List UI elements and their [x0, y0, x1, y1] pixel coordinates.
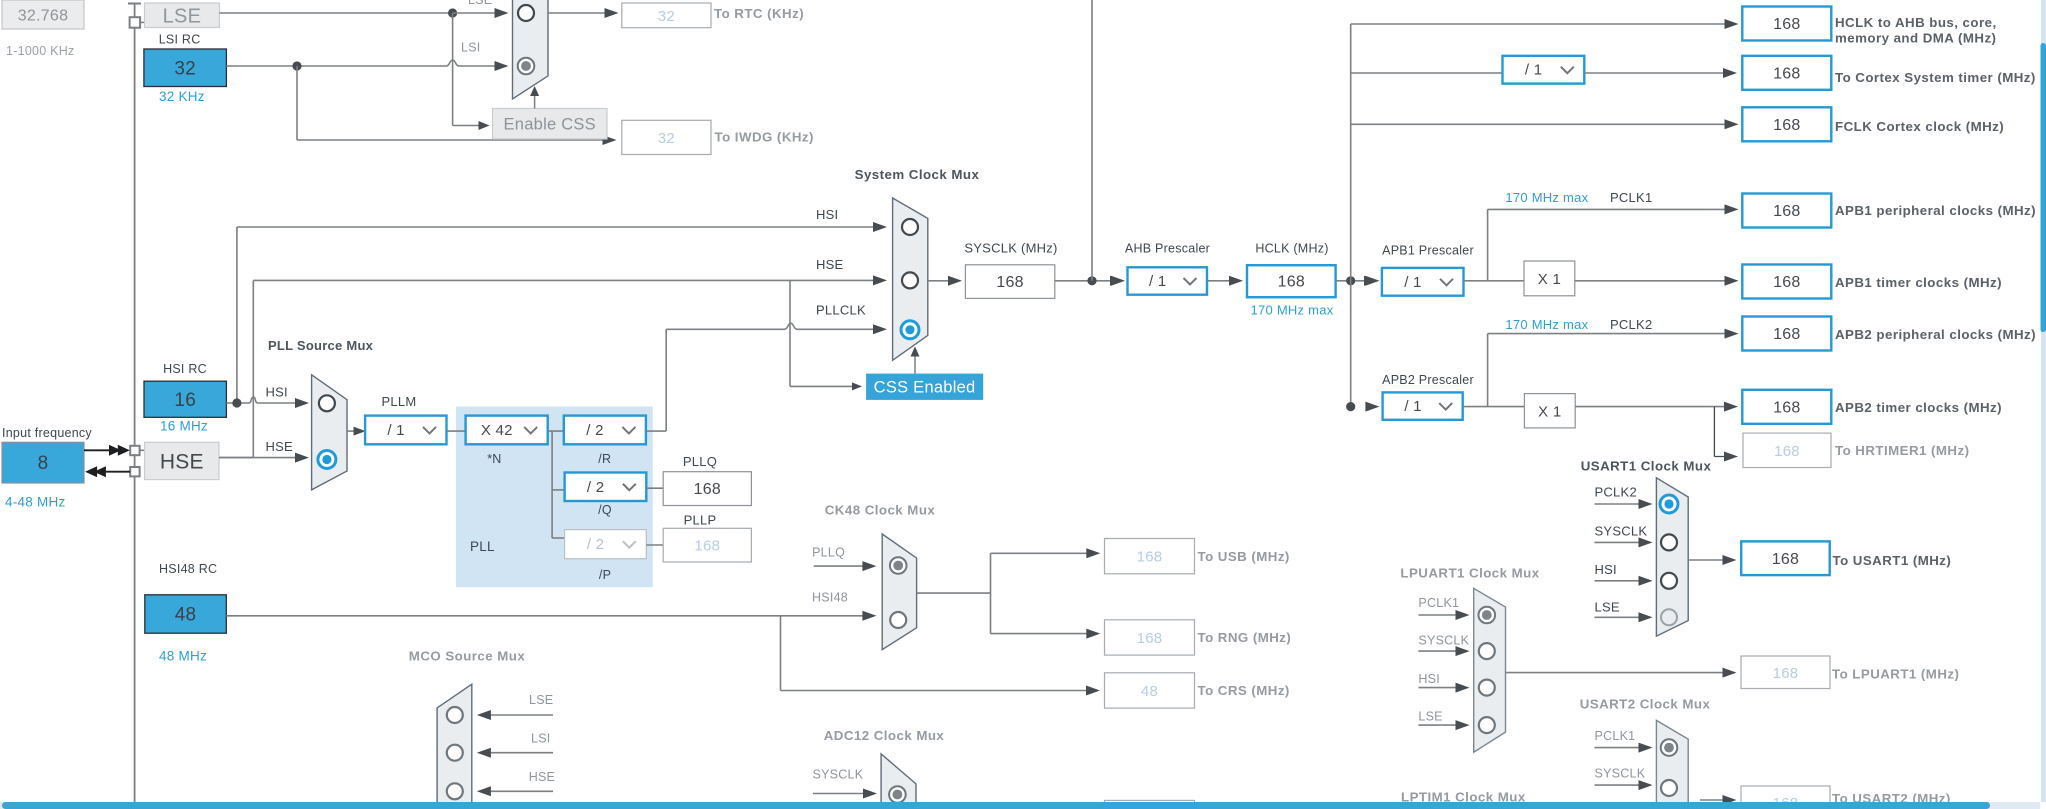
svg-text:LPUART1 Clock Mux: LPUART1 Clock Mux — [1400, 566, 1539, 581]
svg-text:HCLK (MHz): HCLK (MHz) — [1255, 242, 1328, 256]
radio PLLCLK selected blue — [901, 321, 919, 339]
label 170 MHz max PCLK1 — [1505, 190, 1652, 205]
distribution bus HCLK — [1350, 24, 1352, 407]
label MCO Source Mux — [409, 648, 526, 663]
svg-text:/ 1: / 1 — [1525, 62, 1542, 79]
output box To IWDG — [622, 120, 711, 154]
label To IWDG (KHz) — [715, 130, 814, 145]
output box To ADC12 (clipped) — [1105, 800, 1195, 809]
button Enable CSS — [493, 109, 608, 140]
svg-text:APB1 peripheral clocks (MHz): APB1 peripheral clocks (MHz) — [1835, 203, 2036, 218]
stub wire PCLK1 U2 — [1595, 743, 1653, 753]
svg-text:APB2 peripheral clocks (MHz): APB2 peripheral clocks (MHz) — [1835, 327, 2036, 342]
label HSI48 input — [812, 591, 848, 605]
wire CK48 output — [917, 592, 991, 594]
svg-text:ADC12 Clock Mux: ADC12 Clock Mux — [824, 728, 945, 743]
wire USART1 mux output — [1688, 555, 1736, 565]
svg-text:LSE: LSE — [468, 0, 492, 7]
svg-text:CSS Enabled: CSS Enabled — [874, 378, 976, 396]
label HSI input U1 — [1595, 562, 1617, 577]
wire N to R and divider tree — [548, 431, 565, 538]
output box To USART2 (clipped) — [1741, 786, 1830, 809]
label APB2 timer clocks (MHz) — [1835, 400, 2002, 415]
label LSE (clipped at top) — [468, 0, 492, 7]
stub wire LSE LP — [1418, 720, 1469, 730]
label HSI input LP — [1418, 672, 1440, 686]
svg-text:170 MHz max: 170 MHz max — [1505, 190, 1588, 205]
dropdown APB1 prescaler /1 — [1382, 268, 1464, 296]
label LSI MCO — [531, 732, 551, 746]
svg-text:USART1 Clock Mux: USART1 Clock Mux — [1581, 459, 1712, 474]
wire input to HSE with arrows — [84, 445, 130, 456]
stub wire HSI U1 — [1595, 576, 1653, 586]
label SYSCLK input LP — [1418, 634, 1469, 648]
mux MCO (clipped) — [437, 684, 472, 809]
branch HSI48 to CRS — [781, 616, 1101, 696]
svg-text:USART2 Clock Mux: USART2 Clock Mux — [1580, 697, 1711, 712]
dropdown PLLP /2 disabled — [565, 530, 647, 559]
output box Cortex system timer — [1742, 56, 1831, 90]
branch APB1 to PCLK1 — [1488, 204, 1739, 280]
svg-text:168: 168 — [1773, 16, 1800, 33]
label 1-1000 KHz — [6, 44, 75, 58]
label LPTIM1 Clock Mux (clipped) — [1401, 790, 1526, 805]
mux ADC12 (clipped) — [881, 754, 916, 809]
wire HSE to system mux — [253, 275, 887, 285]
svg-text:1-1000 KHz: 1-1000 KHz — [6, 44, 75, 58]
svg-text:LSE: LSE — [1418, 709, 1442, 723]
label AHB Prescaler — [1125, 242, 1210, 256]
mux PLL Source — [312, 375, 347, 490]
input box frequency 8 — [2, 442, 84, 483]
radio LSI input selected grey — [518, 58, 535, 75]
svg-text:X 42: X 42 — [481, 422, 513, 439]
svg-text:170 MHz max: 170 MHz max — [1505, 317, 1588, 332]
svg-text:32: 32 — [658, 130, 675, 147]
dropdown APB2 prescaler /1 — [1383, 392, 1463, 419]
output box APB2 peripheral clocks — [1742, 317, 1831, 351]
radio LSE input unselected — [518, 5, 534, 21]
svg-text:PLLM: PLLM — [382, 394, 417, 409]
label Input frequency — [2, 426, 92, 440]
wire HCLK to FCLK box — [1351, 119, 1739, 129]
label SYSCLK input U1 — [1595, 523, 1648, 538]
value box SYSCLK 168 — [965, 265, 1054, 299]
radio PCLK2 selected blue — [1660, 495, 1678, 513]
svg-text:PCLK2: PCLK2 — [1595, 485, 1637, 500]
svg-text:PLLQ: PLLQ — [812, 546, 845, 560]
svg-text:/ 2: / 2 — [586, 422, 603, 439]
radio MCO HSE unselected — [447, 783, 463, 799]
svg-text:/ 2: / 2 — [587, 536, 604, 553]
svg-text:PLLCLK: PLLCLK — [816, 303, 866, 318]
output box FCLK — [1742, 107, 1831, 141]
radio PCLK1 selected grey LP — [1479, 607, 1496, 624]
svg-text:/P: /P — [599, 568, 611, 582]
radio MCO LSE unselected — [447, 707, 463, 723]
mux USART1 — [1656, 478, 1688, 636]
wire crystal square to LSE box — [140, 21, 144, 23]
svg-text:LSE: LSE — [529, 693, 553, 707]
branch to HRTIMER1 — [1714, 407, 1738, 462]
label HSE MCO — [529, 770, 555, 784]
svg-text:PCLK1: PCLK1 — [1595, 729, 1636, 743]
output box HCLK to AHB — [1742, 7, 1831, 41]
svg-text:To IWDG (KHz): To IWDG (KHz) — [715, 130, 814, 145]
wire HSI to system mux — [237, 222, 887, 232]
wire LSE to RTC mux — [453, 8, 509, 18]
label USART2 Clock Mux — [1580, 697, 1711, 712]
svg-text:HSE: HSE — [816, 257, 844, 272]
radio MCO LSI unselected — [447, 745, 463, 761]
branch APB2 to PCLK2 — [1488, 329, 1739, 407]
output box To RTC — [622, 3, 711, 28]
radio LSE unselected U1 — [1661, 609, 1677, 625]
svg-text:X 1: X 1 — [1538, 271, 1561, 288]
svg-text:48 MHz: 48 MHz — [159, 649, 207, 664]
label To USART2 (MHz) clipped — [1832, 791, 1951, 806]
oscillator box HSE — [145, 442, 219, 479]
svg-text:168: 168 — [1773, 665, 1799, 682]
svg-text:168: 168 — [1774, 443, 1800, 460]
svg-text:32 KHz: 32 KHz — [159, 89, 205, 104]
label To HRTIMER1 (MHz) — [1835, 443, 1969, 458]
label HSI RC — [163, 362, 207, 376]
wire APB1 output — [1464, 280, 1525, 282]
label PCLK2 input — [1595, 485, 1637, 500]
value box HCLK 168 — [1247, 265, 1336, 297]
vertical scrollbar track — [2041, 0, 2046, 802]
label /R — [598, 452, 611, 466]
mux USART2 (clipped) — [1656, 720, 1688, 809]
svg-text:8: 8 — [38, 453, 49, 474]
horizontal scrollbar thumb — [2, 802, 1990, 809]
label LSI RC — [159, 33, 201, 47]
label HSI48 RC — [159, 562, 217, 576]
label HSI at PLL mux — [266, 385, 288, 400]
label 32 KHz — [159, 89, 205, 104]
wire HSI48 output — [226, 611, 876, 621]
radio PCLK1 selected grey U2 — [1661, 739, 1678, 756]
svg-text:/ 1: / 1 — [1404, 274, 1421, 291]
svg-text:SYSCLK: SYSCLK — [1418, 634, 1469, 648]
svg-text:32.768: 32.768 — [18, 8, 68, 25]
label /P — [599, 568, 611, 582]
svg-text:APB2 Prescaler: APB2 Prescaler — [1382, 373, 1474, 387]
label To RNG (MHz) — [1198, 630, 1292, 645]
svg-text:/ 1: / 1 — [1404, 398, 1421, 415]
svg-text:PLLP: PLLP — [684, 513, 717, 528]
multiplier box X1 APB2 — [1524, 394, 1575, 428]
dropdown AHB prescaler /1 — [1128, 267, 1208, 294]
svg-text:APB2 timer clocks (MHz): APB2 timer clocks (MHz) — [1835, 400, 2002, 415]
riser PLLCLK — [665, 329, 667, 431]
label 4-48 MHz — [5, 494, 66, 509]
svg-text:168: 168 — [1773, 326, 1800, 343]
stub wire LSI to MCO — [477, 748, 553, 758]
dropdown PLLQ /2 — [565, 473, 647, 502]
mux System Clock — [893, 198, 928, 360]
radio SYSCLK selected grey ADC — [889, 786, 906, 803]
wire P to PLLP box — [646, 544, 663, 546]
label To LPUART1 (MHz) — [1832, 667, 1959, 682]
svg-text:AHB Prescaler: AHB Prescaler — [1125, 242, 1210, 256]
svg-text:Input frequency: Input frequency — [2, 426, 92, 440]
svg-text:APB1 timer clocks (MHz): APB1 timer clocks (MHz) — [1835, 275, 2002, 290]
wire PLL mux output — [347, 427, 366, 436]
svg-text:PLLQ: PLLQ — [683, 454, 717, 469]
wire HSE to PLL mux — [219, 453, 309, 463]
wire LSI output with hop — [226, 60, 508, 71]
svg-text:SYSCLK (MHz): SYSCLK (MHz) — [964, 241, 1057, 256]
crystal pin square — [130, 17, 141, 28]
label SYSCLK (MHz) — [964, 241, 1057, 256]
svg-text:170 MHz max: 170 MHz max — [1251, 303, 1334, 318]
oscillator box LSI RC 32 — [144, 49, 227, 87]
label APB1 timer clocks (MHz) — [1835, 275, 2002, 290]
svg-text:HSI: HSI — [1595, 562, 1617, 577]
svg-text:FCLK Cortex clock (MHz): FCLK Cortex clock (MHz) — [1835, 119, 2004, 134]
svg-text:16 MHz: 16 MHz — [160, 419, 208, 434]
riser HSI — [236, 227, 238, 403]
svg-text:/R: /R — [598, 452, 611, 466]
wire square to HSE box — [140, 449, 145, 451]
label LPUART1 Clock Mux — [1400, 566, 1539, 581]
svg-text:To HRTIMER1 (MHz): To HRTIMER1 (MHz) — [1835, 443, 1969, 458]
svg-text:168: 168 — [694, 538, 720, 555]
svg-text:32: 32 — [658, 8, 675, 25]
stub wire PCLK1 LP — [1418, 610, 1469, 620]
svg-text:HSI48: HSI48 — [812, 591, 848, 605]
svg-text:168: 168 — [1773, 203, 1800, 220]
label 170 MHz max under HCLK — [1251, 303, 1334, 318]
svg-text:memory and DMA (MHz): memory and DMA (MHz) — [1835, 31, 1996, 46]
svg-text:168: 168 — [1278, 274, 1305, 291]
label HCLK to AHB bus core memory and DMA — [1835, 15, 1997, 46]
svg-text:168: 168 — [1773, 399, 1800, 416]
svg-text:HSI RC: HSI RC — [163, 362, 207, 376]
svg-text:168: 168 — [694, 481, 721, 498]
riser SYSCLK to top — [1091, 0, 1093, 281]
label HSI — [816, 207, 838, 222]
svg-text:32: 32 — [174, 58, 196, 79]
svg-text:168: 168 — [996, 274, 1023, 291]
label PLL Source Mux — [268, 338, 374, 353]
dropdown PLLR /2 — [564, 416, 646, 445]
label USART1 Clock Mux — [1581, 459, 1712, 474]
stub wire HSE to MCO — [477, 786, 553, 796]
value box PLLP 168 disabled — [663, 528, 751, 562]
label To USB (MHz) — [1198, 549, 1290, 564]
output box APB1 timer clocks — [1742, 265, 1831, 299]
arrow into AHB prescaler — [1111, 276, 1125, 286]
wire PLLCLK to system mux with hop — [666, 323, 887, 334]
svg-text:168: 168 — [1773, 117, 1800, 134]
panel PLL highlight — [456, 407, 653, 588]
branch CK48 to USB and RNG — [991, 548, 1101, 638]
svg-text:168: 168 — [1137, 549, 1163, 566]
dropdown PLLN X42 — [466, 416, 548, 445]
svg-text:To RTC (KHz): To RTC (KHz) — [714, 6, 804, 21]
pin square OSC_IN — [130, 446, 139, 455]
node junction HCLK — [1346, 276, 1355, 285]
svg-text:168: 168 — [1772, 551, 1799, 568]
label PLLQ input — [812, 546, 845, 560]
svg-text:4-48 MHz: 4-48 MHz — [5, 494, 66, 509]
output box To USART1 — [1741, 541, 1830, 575]
output box To USB — [1105, 539, 1195, 574]
svg-text:168: 168 — [1773, 274, 1800, 291]
label SYSCLK input ADC — [813, 768, 864, 782]
radio HSI48 unselected — [890, 612, 906, 628]
svg-text:*N: *N — [487, 452, 501, 466]
mux CK48 — [882, 534, 916, 650]
stub wire SYSCLK LP — [1418, 646, 1469, 656]
wire APB1 timer output — [1575, 276, 1739, 286]
svg-text:System Clock Mux: System Clock Mux — [855, 167, 980, 182]
radio HSI unselected — [902, 219, 918, 235]
output box To CRS — [1105, 673, 1195, 708]
wire HCLK to AHB output box — [1351, 19, 1739, 29]
radio SYSCLK unselected U2 — [1661, 780, 1677, 796]
label 48 MHz — [159, 649, 207, 664]
stub wire LSE U1 — [1595, 612, 1653, 622]
node junction HSI — [232, 398, 241, 407]
wire HSE return with arrows — [85, 466, 130, 477]
stub wire SYSCLK U2 — [1595, 780, 1653, 790]
svg-text:LSE: LSE — [163, 5, 202, 27]
value box PLLQ 168 — [663, 472, 751, 506]
label HSE at PLL mux — [266, 439, 294, 454]
wire SYSCLK output — [1055, 276, 1124, 286]
svg-text:HSE: HSE — [529, 770, 555, 784]
output box To LPUART1 — [1741, 656, 1830, 689]
svg-text:X 1: X 1 — [1538, 403, 1561, 420]
wire R output to PLLCLK riser — [646, 430, 666, 432]
radio SYSCLK unselected LP — [1479, 643, 1495, 659]
svg-text:HSI: HSI — [816, 207, 838, 222]
svg-text:SYSCLK: SYSCLK — [1595, 767, 1646, 781]
arrow CSS Enabled to mux — [911, 347, 920, 374]
svg-text:168: 168 — [1137, 630, 1163, 647]
wire HSE branch to CSS Enabled — [790, 280, 862, 390]
label ADC12 Clock Mux — [824, 728, 945, 743]
svg-text:HSE: HSE — [266, 439, 294, 454]
label PCLK1 input LP — [1418, 596, 1459, 610]
wire cortex prescaler to output — [1584, 68, 1737, 78]
node junction on LSE wire — [448, 8, 457, 17]
label PLLCLK — [816, 303, 866, 318]
label LSI — [461, 41, 481, 55]
svg-text:CK48 Clock Mux: CK48 Clock Mux — [825, 503, 936, 518]
pin square OSC_OUT — [130, 467, 139, 476]
dropdown Cortex prescaler /1 — [1503, 56, 1585, 84]
label PCLK1 input U2 — [1595, 729, 1636, 743]
label APB1 Prescaler — [1382, 244, 1474, 258]
svg-text:168: 168 — [1773, 65, 1800, 82]
svg-text:48: 48 — [175, 605, 197, 626]
svg-text:48: 48 — [1141, 683, 1158, 700]
svg-text:To Cortex System timer (MHz): To Cortex System timer (MHz) — [1835, 70, 2036, 85]
svg-text:LSI RC: LSI RC — [159, 33, 201, 47]
oscillator box HSI RC 16 — [144, 381, 226, 417]
label 16 MHz — [160, 419, 208, 434]
main left bus wire — [134, 4, 136, 803]
wire USART2 output (clipped) — [1700, 795, 1737, 805]
svg-text:LSE: LSE — [1595, 600, 1620, 615]
label 170 MHz max PCLK2 — [1505, 317, 1652, 332]
svg-text:PLL Source Mux: PLL Source Mux — [268, 338, 374, 353]
wire HCLK output — [1336, 276, 1378, 286]
wire LPUART1 output — [1506, 668, 1737, 678]
wire LSE junction down to Enable CSS — [453, 13, 490, 130]
svg-text:HCLK to AHB bus, core,: HCLK to AHB bus, core, — [1835, 15, 1997, 30]
svg-text:LSI: LSI — [461, 41, 481, 55]
svg-text:MCO Source Mux: MCO Source Mux — [409, 648, 526, 663]
svg-text:Enable CSS: Enable CSS — [504, 116, 596, 134]
stub wire PLLQ to CK48 — [814, 561, 877, 571]
label LSE input U1 — [1595, 600, 1620, 615]
wire HCLK to cortex prescaler — [1351, 72, 1503, 74]
radio HSI unselected U1 — [1661, 573, 1677, 589]
svg-text:SYSCLK: SYSCLK — [1595, 523, 1648, 538]
label LSE MCO — [529, 693, 553, 707]
svg-text:PCLK2: PCLK2 — [1610, 317, 1652, 332]
output box To HRTIMER1 — [1743, 433, 1831, 467]
arrow Enable CSS to RTC mux — [530, 86, 539, 109]
label APB2 Prescaler — [1382, 373, 1474, 387]
label HCLK (MHz) — [1255, 242, 1328, 256]
output box APB1 peripheral clocks — [1742, 194, 1831, 228]
label /Q — [598, 503, 612, 517]
button CSS Enabled — [866, 374, 983, 400]
wire HSI to PLL mux with hop — [226, 397, 309, 408]
svg-text:/ 1: / 1 — [1149, 273, 1166, 290]
radio HSI unselected LP — [1479, 680, 1495, 696]
oscillator box HSI48 RC 48 — [145, 595, 227, 633]
arrow into APB2 prescaler — [1365, 402, 1379, 412]
dropdown PLLM /1 — [365, 416, 446, 445]
label PLLQ — [683, 454, 717, 469]
radio HSE selected blue PLL — [318, 451, 336, 469]
label To RTC (KHz) — [714, 6, 804, 21]
label PLLP — [684, 513, 717, 528]
mux RTC clock (clipped at top) — [513, 0, 549, 99]
svg-text:/ 1: / 1 — [387, 422, 404, 439]
node junction SYSCLK — [1087, 276, 1096, 285]
label SYSCLK input U2 — [1595, 767, 1646, 781]
label *N — [487, 452, 501, 466]
label CK48 Clock Mux — [825, 503, 936, 518]
svg-text:16: 16 — [174, 390, 196, 411]
mux LPUART1 — [1474, 588, 1506, 752]
label LSE input LP — [1418, 709, 1442, 723]
radio HSI unselected PLL — [319, 395, 335, 411]
oscillator box LSE — [145, 3, 220, 28]
input field 32.768 KHz LSE frequency — [2, 0, 84, 29]
node junction on LSI wire — [292, 61, 301, 70]
svg-text:To USB (MHz): To USB (MHz) — [1198, 549, 1290, 564]
svg-text:To USART1 (MHz): To USART1 (MHz) — [1833, 553, 1952, 568]
label System Clock Mux — [855, 167, 980, 182]
wire HSE output — [219, 457, 253, 459]
svg-text:LSI: LSI — [531, 732, 551, 746]
horizontal scrollbar track — [0, 802, 2040, 809]
radio HSE unselected — [902, 272, 918, 288]
label PLL — [470, 539, 495, 554]
label APB1 peripheral clocks (MHz) — [1835, 203, 2036, 218]
svg-text:To LPUART1 (MHz): To LPUART1 (MHz) — [1832, 667, 1959, 682]
